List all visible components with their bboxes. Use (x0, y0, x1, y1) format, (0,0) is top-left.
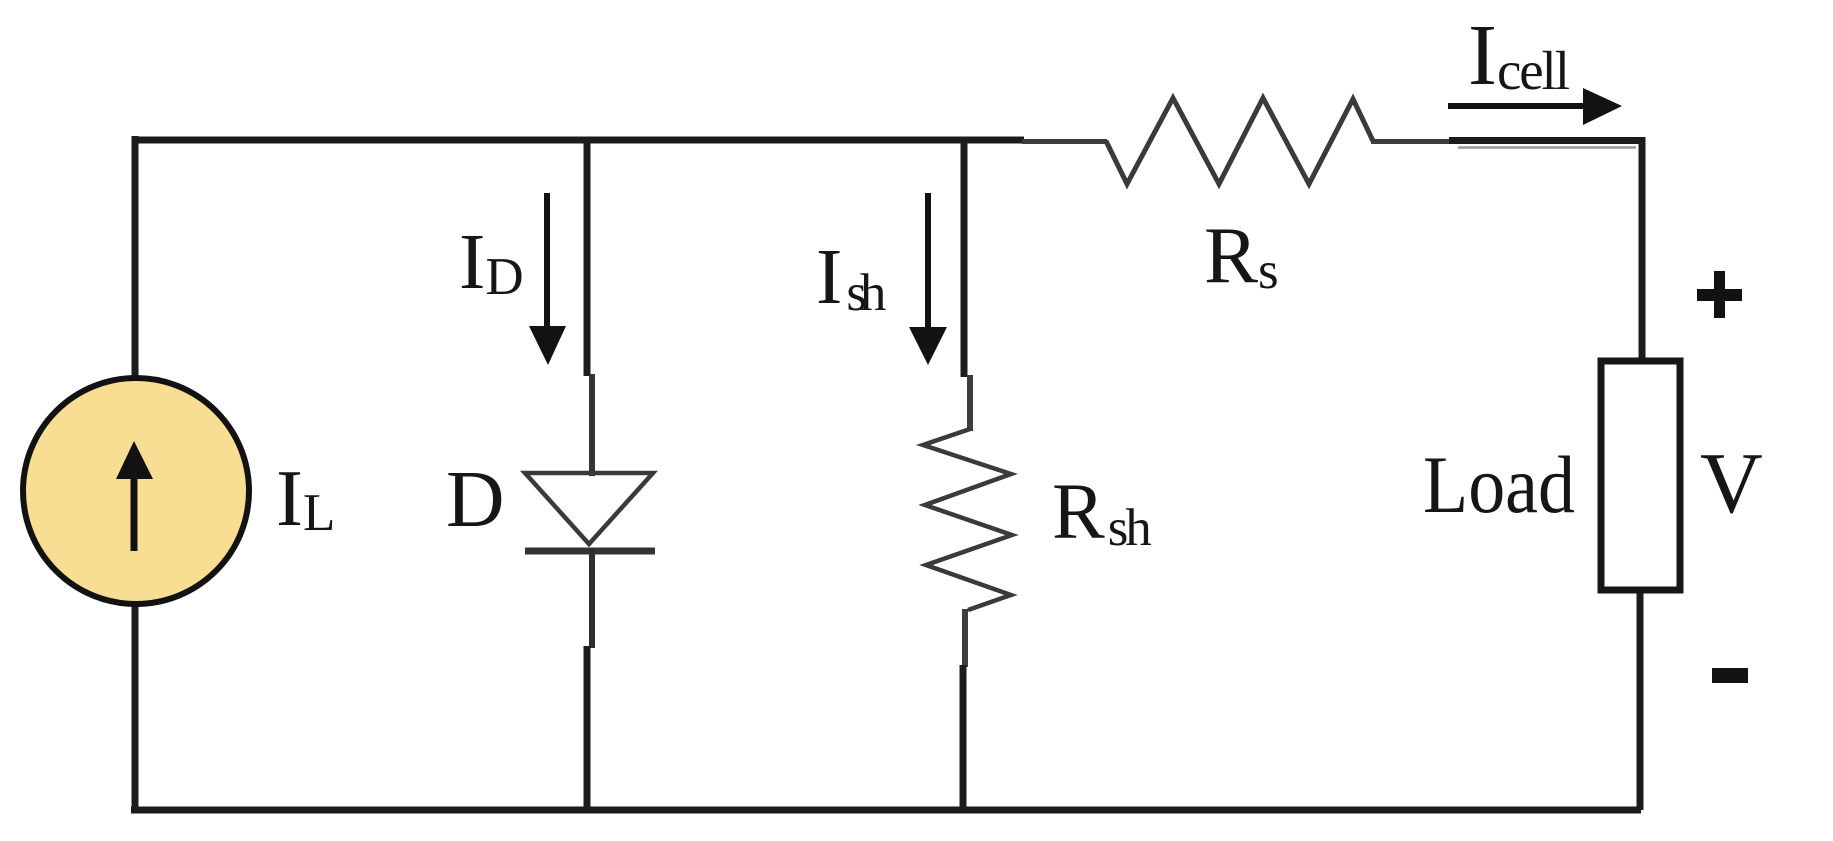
wire: left rail lower (132, 604, 139, 810)
wire: right rail lower (load to bottom) (1637, 588, 1644, 810)
svg-text:Ish: Ish (816, 234, 886, 322)
wire: top rail left segment (134, 137, 1024, 144)
wire: diode branch upper (584, 137, 591, 376)
wire: left rail upper (132, 136, 139, 378)
wire: shunt branch upper (961, 137, 968, 377)
wire: diode branch lower (589, 548, 595, 648)
plus sign (1697, 271, 1742, 318)
svg-text:IL: IL (276, 453, 335, 543)
wire: Rsh top lead (967, 375, 973, 431)
wire: shunt branch lower (962, 609, 968, 667)
wire: bottom rail (131, 807, 1641, 814)
wire: shunt branch lower dark (960, 665, 967, 810)
svg-text:Icell: Icell (1468, 6, 1570, 103)
svg-text:Rs: Rs (1204, 210, 1279, 300)
wire: diode anode lead (589, 374, 595, 476)
svg-text:D: D (446, 454, 505, 544)
current arrow Ish (909, 193, 947, 365)
minus sign (1712, 668, 1748, 683)
current arrow ID (529, 193, 566, 365)
svg-text:Load: Load (1423, 439, 1575, 530)
wire: diode branch lower dark (584, 646, 591, 810)
current source IL circle (23, 378, 249, 604)
wire: top rail right segment (1449, 137, 1645, 144)
wire: Rs left lead (1022, 139, 1107, 144)
load rectangle (1601, 361, 1680, 590)
svg-text:Rsh: Rsh (1052, 469, 1152, 557)
current arrow Icell (1448, 88, 1622, 125)
svg-text:ID: ID (459, 219, 524, 306)
current source arrow (116, 441, 153, 551)
diode D (525, 473, 655, 551)
svg-text:V: V (1700, 434, 1763, 531)
wire: top rail right ghost underline (1458, 146, 1636, 149)
wire: Rs right lead (1371, 139, 1452, 144)
resistor Rsh zigzag (923, 429, 1012, 610)
wire: right rail upper (1639, 137, 1646, 364)
resistor Rs zigzag (1106, 98, 1373, 184)
